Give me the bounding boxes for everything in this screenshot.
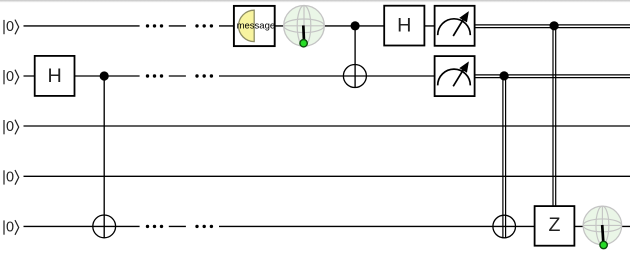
wire q4 — [24, 225, 630, 227]
qubit label |0> q2 — [4, 119, 19, 135]
svg-text:message: message — [237, 20, 276, 31]
qubit label |0> q4 — [4, 220, 19, 236]
qubit label |0> q1 — [4, 69, 19, 85]
gate H q0 — [384, 6, 424, 46]
qubit label |0> q0 — [4, 19, 19, 35]
svg-text:0: 0 — [6, 19, 14, 35]
gate Z q4 (classically controlled) — [535, 206, 575, 246]
CNOT target q1 — [343, 65, 366, 88]
ellipsis dots q4 group 2 — [195, 225, 213, 228]
classical wire q0 (double line after measurement) — [475, 25, 630, 28]
svg-text:0: 0 — [6, 170, 14, 186]
wire q1 — [24, 75, 437, 77]
CNOT target q4 (column 2, classically controlled) — [493, 215, 516, 238]
vertical control wire q0 to q1 — [354, 26, 356, 88]
svg-text:0: 0 — [6, 220, 14, 236]
ellipsis dots q1 group 2 — [195, 74, 213, 77]
svg-text:0: 0 — [6, 119, 14, 135]
classical vertical control wire q1 to q4 (double) — [503, 76, 506, 238]
gate H q1 — [35, 56, 75, 96]
Bloch sphere display q4 — [583, 206, 622, 249]
classical control dot q0 — [550, 21, 559, 30]
control dot q1 (column 1) — [100, 71, 109, 80]
classical vertical control wire q0 to Z gate (double) — [553, 26, 556, 206]
svg-text:H: H — [397, 14, 411, 36]
ellipsis dots q0 group 2 — [195, 24, 213, 27]
svg-text:Z: Z — [549, 214, 561, 236]
Bloch sphere display q0 — [284, 6, 325, 47]
svg-text:0: 0 — [6, 69, 14, 85]
ellipsis dots q1 group 1 — [146, 74, 163, 77]
wire q3 — [24, 175, 630, 177]
qubit label |0> q3 — [4, 170, 19, 186]
ellipsis dots q0 group 1 — [146, 24, 163, 27]
wire q0 — [24, 25, 437, 27]
classical control dot q1 — [500, 71, 509, 80]
CNOT target q4 (column 1) — [93, 215, 116, 238]
gate message q0 — [234, 6, 275, 46]
wire q2 — [24, 125, 630, 127]
classical wire q1 (double line after measurement) — [475, 75, 630, 78]
ellipsis dots q4 group 1 — [146, 225, 163, 228]
measurement gate q0 — [435, 6, 475, 46]
vertical control wire q1 to q4 (column 1) — [103, 76, 105, 238]
measurement gate q1 — [435, 56, 475, 96]
svg-text:H: H — [47, 65, 61, 87]
control dot q0 — [351, 21, 360, 30]
